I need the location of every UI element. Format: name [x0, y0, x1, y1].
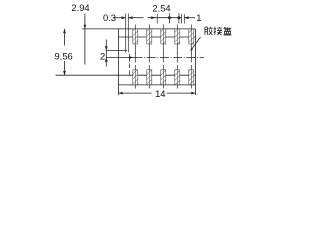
- svg-text:9.56: 9.56: [55, 51, 73, 62]
- node column centerline 1: [134, 25, 136, 89]
- char 3: [224, 27, 232, 35]
- wire case right edge with 14-dim extension: [195, 29, 197, 95]
- label text (solder land) drawn CJK strokes: [205, 27, 232, 35]
- dimension 2: [100, 40, 133, 77]
- pad P1 top row: [133, 29, 138, 44]
- char 1: [205, 27, 213, 35]
- label leader line to top-right pad: [190, 37, 200, 52]
- wire case bottom inner line extended left for 9.56 dim: [56, 74, 196, 76]
- pad P4 top row: [175, 29, 180, 44]
- svg-text:2.94: 2.94: [71, 2, 89, 13]
- dimension 9.56: [55, 29, 73, 75]
- pad P5 top row: [189, 29, 194, 44]
- svg-text:2.54: 2.54: [152, 3, 170, 14]
- char 2: [214, 27, 222, 35]
- pad P8 bottom row: [161, 70, 166, 85]
- dimension 2.54: [148, 3, 182, 24]
- dimension 2.94: [71, 2, 89, 65]
- dimension 14: [119, 88, 196, 99]
- node column centerline 3: [162, 25, 164, 89]
- svg-text:1: 1: [196, 12, 201, 23]
- dimension 1: [181, 12, 201, 24]
- pad P3 top row: [161, 29, 166, 44]
- wire pad-bottoms bottom edge line: [119, 84, 196, 86]
- pad P2 top row: [147, 29, 152, 44]
- node column centerline 5: [190, 25, 192, 89]
- node horizontal centerline dash-dot: [134, 57, 204, 59]
- pad P7 bottom row: [147, 70, 152, 85]
- node column centerline 2: [148, 25, 150, 89]
- node column centerline 4: [176, 25, 178, 89]
- wire case left edge with 14-dim extension: [118, 29, 120, 95]
- svg-text:2: 2: [100, 51, 105, 62]
- dimension 0.3: [103, 12, 144, 53]
- pad P10 bottom row: [189, 70, 194, 85]
- pad P6 bottom row: [133, 70, 138, 85]
- wire case top inner line: [119, 36, 196, 38]
- pad P9 bottom row: [175, 70, 180, 85]
- svg-text:14: 14: [155, 88, 165, 99]
- wire pad-tops top edge line extended left for 2.94 dim: [82, 28, 196, 30]
